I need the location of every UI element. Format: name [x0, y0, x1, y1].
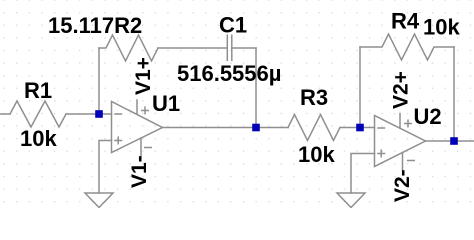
- wire U1 output to node B: [163, 127, 257, 129]
- ground symbol GND2: [337, 193, 365, 208]
- wire R1 to U1 inverting input (node A through J1): [66, 113, 112, 115]
- svg-text:R1: R1: [24, 78, 52, 103]
- svg-text:15.117R2: 15.117R2: [48, 13, 142, 38]
- resistor R4: [360, 34, 454, 60]
- label C1: [219, 13, 247, 38]
- op-amp U2 triangle: [375, 116, 426, 167]
- U1 V- power pin stub: [140, 138, 142, 156]
- wire R3 to U2 inverting input (node C through J3): [340, 127, 375, 129]
- U1 V- marker: [145, 147, 152, 149]
- resistor R2: [99, 35, 158, 61]
- wire U2 output to right edge: [426, 140, 474, 142]
- svg-text:V1+: V1+: [132, 57, 155, 95]
- junction node B (U1 out/C1/R3): [252, 124, 260, 132]
- net label V1-: [128, 155, 151, 188]
- net label V1+: [132, 57, 155, 95]
- junction node A (R1/R2/U1-): [95, 110, 103, 118]
- svg-text:516.5556µ: 516.5556µ: [177, 61, 281, 86]
- svg-text:U2: U2: [414, 104, 442, 129]
- U1 non-inverting input marker: [115, 137, 122, 144]
- U1 V+ marker: [142, 107, 149, 114]
- svg-text:10k: 10k: [423, 15, 460, 40]
- wire C1 right lead: [232, 47, 256, 49]
- U2 V+ marker: [405, 120, 412, 127]
- ground symbol GND1: [85, 193, 113, 208]
- U2 V+ power pin stub: [399, 114, 401, 129]
- U2 inverting input marker: [378, 127, 385, 129]
- svg-text:U1: U1: [152, 91, 180, 116]
- wire node B to R3: [256, 127, 288, 129]
- wire U1 non-inverting to ground: [99, 141, 112, 194]
- label R1: [24, 78, 52, 103]
- net label V2-: [391, 169, 414, 202]
- svg-text:R4: R4: [391, 9, 420, 34]
- wire R2 to C1: [158, 47, 227, 49]
- label R1 value 10k: [20, 126, 57, 151]
- label R4: [391, 9, 420, 34]
- U2 non-inverting input marker: [378, 150, 385, 157]
- label R3 value 10k: [298, 142, 335, 167]
- op-amp U1 triangle: [112, 102, 163, 153]
- U1 V+ power pin stub: [136, 100, 138, 114]
- U2 V- power pin stub: [402, 153, 404, 171]
- svg-text:C1: C1: [219, 13, 247, 38]
- label R2 value 15.117 and name R2: [48, 13, 142, 38]
- wire C1 down to output node: [255, 48, 257, 128]
- wire R4 right vertical to output node D: [453, 47, 455, 141]
- wire U2 non-inverting to ground: [351, 154, 375, 194]
- net label V2+: [390, 71, 413, 109]
- label R4 value 10k: [423, 15, 460, 40]
- svg-text:V1-: V1-: [128, 155, 151, 188]
- svg-text:10k: 10k: [20, 126, 57, 151]
- svg-text:10k: 10k: [298, 142, 335, 167]
- resistor R1: [10, 101, 66, 127]
- wire R2 left vertical: [98, 48, 100, 111]
- svg-text:V2-: V2-: [391, 169, 414, 202]
- label C1 value 516.5556u: [177, 61, 281, 86]
- label U2: [414, 104, 442, 129]
- junction node D (U2 out/R4/output): [450, 137, 458, 145]
- U1 inverting input marker: [115, 113, 122, 115]
- U2 V- marker: [408, 160, 415, 162]
- wire R4 left vertical: [359, 47, 361, 128]
- junction node C (R3/R4/U2-): [356, 124, 364, 132]
- svg-text:V2+: V2+: [390, 71, 413, 109]
- label U1: [152, 91, 180, 116]
- wire input to R1: [0, 113, 10, 115]
- capacitor C1 plates: [227, 35, 232, 60]
- resistor R3: [288, 115, 340, 141]
- label R3: [300, 85, 328, 110]
- svg-text:R3: R3: [300, 85, 328, 110]
